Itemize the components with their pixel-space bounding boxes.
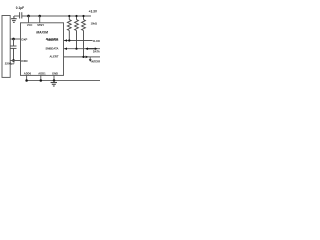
op-amp U1 MAX6654 box — [21, 23, 64, 76]
label 2200pF for capacitor C2 — [5, 62, 15, 66]
wire ground bus — [27, 80, 100, 82]
svg-text:ADD1: ADD1 — [38, 71, 46, 75]
node DXN / C2 bottom — [12, 59, 15, 62]
label CLOCK net — [93, 40, 102, 43]
wire interrupt drop to ground bus — [89, 57, 91, 60]
node R1 bottom on SMBCLK — [68, 39, 70, 41]
svg-text:MAXIM: MAXIM — [36, 31, 48, 35]
node VCC junction on rail — [27, 15, 30, 18]
arrow SMBDATA bus double head — [85, 47, 97, 50]
svg-text:DATA: DATA — [93, 50, 100, 54]
svg-text:DXP: DXP — [21, 37, 27, 41]
node ADD1 on bus — [40, 79, 43, 82]
label SMBDATA pin — [45, 46, 58, 50]
svg-text:STBY: STBY — [37, 23, 44, 27]
arrow ALERT output — [86, 56, 89, 59]
svg-text:CLOCK: CLOCK — [93, 40, 100, 43]
wire ADD0 pin drop — [26, 75, 28, 80]
arrow interrupt return drop — [89, 59, 92, 62]
wire ADD1 pin drop — [40, 75, 42, 80]
capacitor C2 2200pF — [11, 39, 17, 61]
node R3 bottom on ALERT — [82, 56, 84, 58]
node STBY junction on rail — [38, 15, 41, 18]
capacitor C1 0.1uF (inline bypass) — [20, 12, 22, 18]
wire STBY pin drop — [39, 16, 41, 23]
svg-text:0.1µF: 0.1µF — [16, 6, 24, 10]
node R2 top on rail — [75, 15, 77, 17]
label ADD1 pin — [38, 71, 46, 75]
wire SMBDATA — [64, 48, 101, 50]
node R3 top on rail — [82, 15, 84, 17]
svg-text:2200pF: 2200pF — [5, 62, 15, 66]
ground (main, below GND pin) — [51, 83, 57, 87]
arrow SMBDATA input — [64, 47, 67, 50]
svg-text:GND: GND — [52, 71, 58, 75]
wire SMBCLK — [64, 40, 93, 42]
label MAX6654 part number — [46, 37, 59, 41]
label ADD0 pin — [24, 71, 32, 75]
node DXP / C2 top — [12, 38, 15, 41]
label STBY pin — [37, 23, 44, 27]
wire VDD rail — [22, 15, 91, 17]
label GND pin — [52, 71, 58, 75]
wire GND pin drop — [53, 75, 55, 80]
svg-text:SMBCLK: SMBCLK — [47, 38, 59, 42]
svg-text:VCC: VCC — [27, 23, 33, 27]
svg-text:10kΩ: 10kΩ — [91, 22, 97, 26]
label DXN pin — [21, 59, 27, 63]
svg-text:+3.3V: +3.3V — [89, 10, 98, 14]
resistor R2 10k pullup SMBDATA — [75, 16, 79, 49]
node R2 bottom on SMBDATA — [75, 48, 77, 50]
svg-text:INTERRUPT: INTERRUPT — [91, 59, 100, 63]
wire ALERT — [64, 56, 101, 58]
resistor R3 10k pullup ALERT — [82, 16, 86, 57]
wire ground to C1 left plate — [14, 15, 19, 17]
label 0.1uF for capacitor C1 — [16, 6, 24, 10]
node ADD0 on bus — [25, 79, 28, 82]
svg-text:ALERT: ALERT — [50, 54, 59, 58]
wire DXP — [10, 38, 20, 40]
svg-text:DXN: DXN — [21, 59, 27, 63]
node GND on bus — [53, 79, 56, 82]
resistor R1 10k pullup SMBCLK — [67, 16, 71, 41]
label INTERRUPT net — [91, 59, 106, 63]
label DATA net — [93, 50, 100, 54]
label SMBCLK pin — [47, 38, 59, 42]
node R1 top on rail — [68, 15, 70, 17]
wire DXN — [10, 60, 20, 62]
label DXP pin — [21, 37, 27, 41]
label MAXIM logo — [36, 31, 48, 35]
label ALERT pin — [50, 54, 59, 58]
svg-text:SMBDATA: SMBDATA — [45, 46, 58, 50]
svg-text:ADD0: ADD0 — [24, 71, 32, 75]
label 10k resistors — [91, 22, 97, 26]
label VCC pin — [27, 23, 33, 27]
remote diode box (left) — [2, 16, 10, 78]
label +3.3V supply — [89, 10, 98, 14]
arrow SMBCLK input — [64, 39, 67, 42]
ground (top-left, bypass return) — [11, 16, 17, 22]
wire VCC pin drop — [28, 16, 30, 23]
